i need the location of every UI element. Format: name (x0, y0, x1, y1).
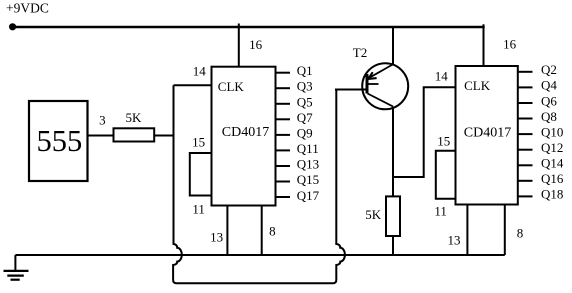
svg-text:13: 13 (210, 229, 223, 244)
svg-text:Q3: Q3 (297, 79, 313, 94)
svg-text:Q10: Q10 (541, 124, 563, 139)
svg-text:15: 15 (192, 134, 205, 149)
svg-text:5K: 5K (365, 207, 382, 222)
svg-text:16: 16 (503, 37, 516, 52)
svg-text:CD4017: CD4017 (222, 125, 269, 140)
svg-text:Q7: Q7 (297, 110, 313, 125)
svg-text:CLK: CLK (464, 78, 491, 93)
svg-text:8: 8 (517, 225, 524, 240)
svg-text:5K: 5K (126, 110, 143, 125)
svg-text:Q15: Q15 (297, 172, 319, 187)
svg-text:11: 11 (192, 201, 205, 216)
svg-text:CLK: CLK (218, 79, 245, 94)
svg-text:Q8: Q8 (541, 109, 557, 124)
svg-text:Q2: Q2 (541, 62, 557, 77)
svg-text:14: 14 (435, 68, 449, 83)
svg-text:16: 16 (249, 37, 263, 52)
svg-text:Q9: Q9 (297, 125, 313, 140)
svg-text:Q16: Q16 (541, 171, 564, 186)
svg-text:Q6: Q6 (541, 93, 557, 108)
svg-text:Q5: Q5 (297, 94, 313, 109)
svg-text:Q11: Q11 (297, 141, 319, 156)
svg-text:Q13: Q13 (297, 157, 319, 172)
svg-text:T2: T2 (353, 45, 367, 60)
svg-text:Q18: Q18 (541, 187, 563, 202)
svg-text:555: 555 (37, 124, 83, 158)
svg-text:8: 8 (269, 224, 276, 239)
svg-text:11: 11 (434, 203, 447, 218)
svg-text:Q1: Q1 (297, 63, 313, 78)
svg-text:14: 14 (193, 64, 207, 79)
svg-text:Q12: Q12 (541, 140, 563, 155)
svg-text:+9VDC: +9VDC (6, 1, 49, 16)
svg-text:13: 13 (448, 233, 461, 248)
svg-text:Q4: Q4 (541, 78, 557, 93)
svg-text:3: 3 (99, 113, 106, 128)
svg-text:Q14: Q14 (541, 156, 564, 171)
svg-text:15: 15 (437, 134, 450, 149)
svg-text:CD4017: CD4017 (464, 126, 511, 141)
svg-text:Q17: Q17 (297, 188, 320, 203)
